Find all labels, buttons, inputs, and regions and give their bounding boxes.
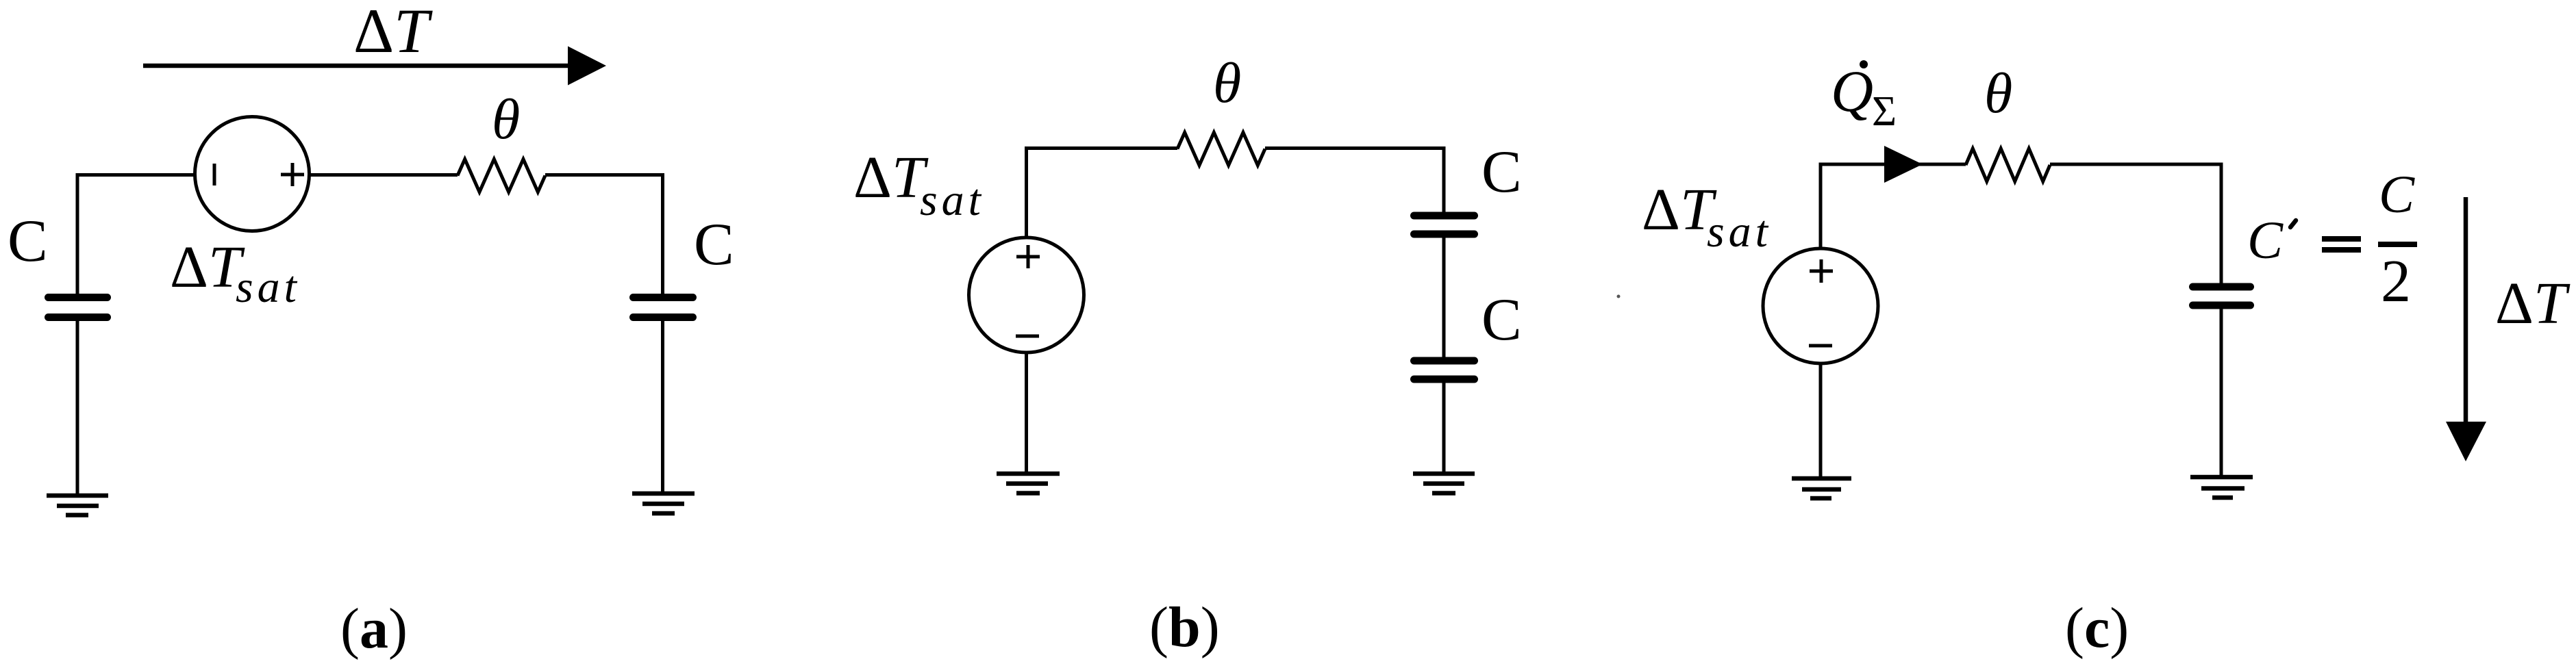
svg-text:ΔT: ΔT xyxy=(2495,270,2571,336)
svg-text:Σ: Σ xyxy=(1872,88,1897,135)
wire (a) right horizontal xyxy=(545,173,663,177)
wire (c) source bottom to ground xyxy=(1819,362,1823,476)
svg-text:C: C xyxy=(2247,210,2284,270)
ground (c left) xyxy=(1792,478,1851,498)
resistor θ (a) xyxy=(458,159,545,192)
ground (a right) xyxy=(632,494,695,513)
arrow ΔT (c right, downward) xyxy=(2446,197,2486,461)
ground (a left) xyxy=(47,496,108,515)
wire (a) right cap to ground xyxy=(661,319,664,491)
label ΔT_sat (a) xyxy=(170,233,301,312)
label Q̇_Σ (c) xyxy=(1831,58,1897,135)
label C' = C/2 (c) xyxy=(2247,164,2417,315)
voltage source ΔT_sat (b) xyxy=(969,238,1084,353)
wire (c) source top to corner xyxy=(1821,164,1890,250)
ground (b left) xyxy=(997,474,1060,494)
svg-text:C: C xyxy=(2379,164,2415,224)
wire (b) bottom cap to ground xyxy=(1442,381,1446,472)
artifact speck xyxy=(1617,295,1621,298)
svg-text:(c): (c) xyxy=(2065,596,2129,660)
arrow ΔT (a) xyxy=(143,47,606,86)
capacitor C' (c) xyxy=(2193,287,2251,305)
svg-text:ΔT: ΔT xyxy=(353,0,433,66)
svg-text:sat: sat xyxy=(1707,207,1772,257)
svg-text:sat: sat xyxy=(920,175,985,225)
ground (b right) xyxy=(1413,474,1475,494)
wire (a) right vertical xyxy=(661,173,664,294)
wire (c) cap to ground xyxy=(2220,307,2223,475)
wire (c) arrow to resistor xyxy=(1918,163,1966,166)
capacitor C (b bottom) xyxy=(1414,361,1475,379)
svg-text:ΔT: ΔT xyxy=(170,233,245,300)
resistor θ (b) xyxy=(1177,133,1265,166)
wire (b) between capacitors xyxy=(1442,236,1446,359)
svg-text:(b): (b) xyxy=(1149,595,1220,659)
voltage source ΔT_sat (a) xyxy=(195,117,310,231)
svg-text:ΔT: ΔT xyxy=(1642,176,1717,242)
capacitor C (b top) xyxy=(1414,216,1475,234)
svg-text:(a): (a) xyxy=(340,597,408,661)
svg-text:ΔT: ΔT xyxy=(853,144,929,210)
svg-text:θ: θ xyxy=(1213,51,1241,115)
svg-text:C: C xyxy=(1481,287,1522,353)
wire (a) left cap to ground xyxy=(76,319,79,494)
wire (a) left horizontal xyxy=(77,173,196,177)
wire (b) source top to corner xyxy=(1027,149,1178,240)
svg-text:θ: θ xyxy=(1984,62,2012,125)
wire (a) mid horizontal xyxy=(308,173,458,177)
svg-text:C: C xyxy=(694,212,734,278)
wire (b) resistor to right corner down xyxy=(1265,149,1444,213)
svg-text:θ: θ xyxy=(492,88,520,151)
capacitor C (a left) xyxy=(49,298,108,318)
svg-text:C: C xyxy=(1481,139,1522,205)
resistor θ (c) xyxy=(1966,149,2050,181)
svg-text:2: 2 xyxy=(2381,248,2411,315)
voltage source ΔT_sat (c) xyxy=(1763,248,1878,363)
wire (b) source bottom to ground xyxy=(1025,351,1028,472)
wire (c) resistor to right corner down xyxy=(2050,164,2221,283)
arrowhead Q̇_Σ current direction (c) xyxy=(1884,146,1923,183)
svg-text:sat: sat xyxy=(236,262,301,312)
label ΔT (a top) xyxy=(353,0,433,66)
label ΔT_sat (b) xyxy=(853,144,985,225)
wire (a) left vertical xyxy=(76,173,79,294)
capacitor C (a right) xyxy=(634,298,693,318)
label ΔT_sat (c) xyxy=(1642,176,1772,257)
ground (c right) xyxy=(2190,477,2253,498)
svg-text:C: C xyxy=(8,208,48,274)
svg-text:Q: Q xyxy=(1831,58,1873,124)
